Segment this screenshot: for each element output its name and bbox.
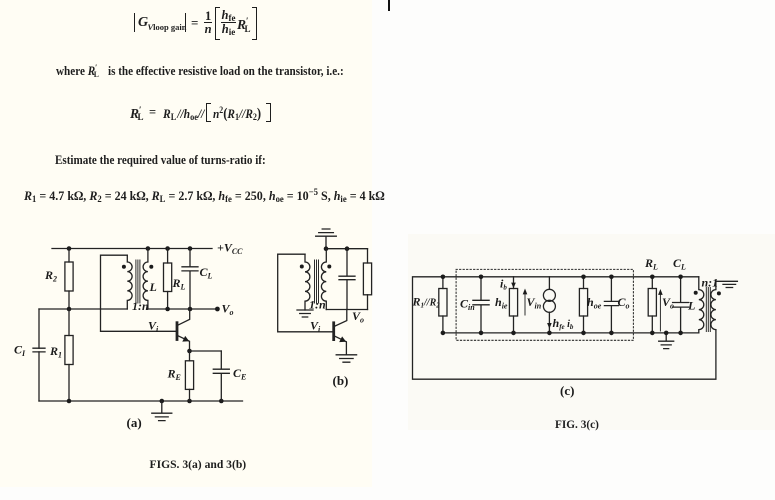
- node Cin bottom: [479, 331, 484, 336]
- svg-text:Vo: Vo: [222, 302, 234, 318]
- svg-text:CL: CL: [673, 256, 686, 272]
- label R1//R2: [412, 295, 441, 310]
- label CE: [233, 366, 246, 382]
- label Vi (a): [148, 319, 159, 335]
- label L (a): [149, 280, 157, 294]
- label (b) caption: [333, 373, 349, 388]
- svg-text:L: L: [687, 299, 695, 313]
- resistor RE: [185, 351, 193, 401]
- current source hfe ib: [543, 277, 555, 333]
- wire feedback loop primary-to-base (a): [101, 255, 176, 331]
- node Vo terminal (a): [215, 307, 220, 312]
- svg-text:Vi: Vi: [148, 319, 159, 335]
- node RL top (c): [650, 275, 655, 280]
- capacitor CL (a): [182, 249, 198, 310]
- values-line: [24, 188, 385, 204]
- node current source bottom: [547, 331, 552, 336]
- capacitor CI: [33, 348, 45, 352]
- label Vo (a): [222, 302, 234, 318]
- transformer T3 phase dot secondary: [717, 291, 721, 295]
- node R2-VCC junction: [67, 246, 72, 251]
- node CL-collector junction: [188, 307, 193, 312]
- svg-text:(c): (c): [560, 383, 574, 398]
- wire outer loop (c): [413, 277, 716, 379]
- svg-text:CL: CL: [200, 265, 213, 281]
- wire emitter to CE: [190, 350, 222, 352]
- power +VCC label: [217, 241, 243, 257]
- ground symbol primary (b): [297, 310, 313, 317]
- resistor load (b): [363, 249, 371, 310]
- label Vin: [527, 295, 542, 311]
- node CE-ground junction: [219, 399, 224, 404]
- svg-text:R1: R1: [49, 344, 62, 360]
- svg-text:Cin: Cin: [460, 297, 475, 313]
- label RE: [167, 367, 181, 383]
- ground symbol secondary top (c): [716, 281, 738, 287]
- page-edge tick mark: [388, 0, 390, 11]
- label 1:n (b): [309, 298, 326, 312]
- dashed hybrid-model box: [456, 269, 633, 340]
- label L (c): [687, 299, 695, 313]
- label hoe: [587, 295, 602, 311]
- svg-text:ib: ib: [500, 277, 507, 292]
- ground symbol top (b) inverted: [316, 229, 337, 249]
- wire output node (a): [148, 308, 218, 310]
- transformer T2 primary winding (b): [305, 254, 310, 310]
- wire VCC top rail (a): [52, 248, 212, 250]
- svg-text:CE: CE: [233, 366, 246, 382]
- node CL bottom (c): [678, 331, 683, 336]
- transformer T1 secondary winding L (a): [143, 249, 148, 310]
- node RE-ground junction: [187, 399, 192, 404]
- svg-text:1:n: 1:n: [132, 299, 149, 313]
- label hfe ib: [553, 316, 574, 331]
- node transformer-secondary VCC junction: [146, 246, 151, 251]
- node hoe bottom: [581, 331, 586, 336]
- label ib: [500, 277, 507, 292]
- node RL-output junction: [165, 307, 170, 312]
- label RL (c): [644, 256, 658, 272]
- svg-text:(a): (a): [127, 415, 142, 430]
- node CL-VCC junction: [188, 246, 193, 251]
- resistor RL (c): [648, 277, 656, 333]
- transistor Q1 (a): [177, 309, 190, 351]
- label Vo (b): [352, 309, 364, 325]
- resistor hie with ib arrow: [509, 277, 517, 333]
- transformer T1 phase dot primary: [122, 265, 126, 269]
- node hie bottom: [511, 331, 516, 336]
- resistor RL (a): [164, 249, 172, 310]
- ground symbol emitter (b): [336, 355, 356, 362]
- label CI: [14, 343, 26, 359]
- label (a) caption: [127, 415, 142, 430]
- label Co: [618, 295, 630, 311]
- label CL (c): [673, 256, 686, 272]
- node capacitor junction top (b): [345, 246, 350, 251]
- capacitor Co: [604, 277, 618, 333]
- label hie: [495, 295, 508, 311]
- svg-text:Vo: Vo: [352, 309, 364, 325]
- capacitor CE: [213, 351, 229, 401]
- transformer T1 phase dot secondary: [149, 265, 153, 269]
- wire ground rail (a): [39, 400, 243, 402]
- node ground-symbol junction: [160, 399, 165, 404]
- transformer T2 secondary winding (b): [321, 249, 326, 310]
- node RL bottom (c): [650, 331, 655, 336]
- node R1-ground junction: [67, 399, 72, 404]
- svg-text:R1//R2: R1//R2: [412, 295, 441, 310]
- transformer T3 phase dot primary: [694, 291, 698, 295]
- arrow Vin: [523, 289, 528, 316]
- capacitor Cin: [473, 277, 489, 333]
- node Co bottom: [609, 331, 614, 336]
- node RL-VCC junction: [165, 246, 170, 251]
- transistor Q1 (b): [334, 310, 347, 355]
- node secondary-ground junction (b): [324, 246, 329, 251]
- estimate-line: [55, 153, 266, 168]
- svg-text:RE: RE: [167, 367, 181, 383]
- equation 1: |G_Vloop gain| = (1/n)[hfe/hie R'L]: [0, 0, 1, 1]
- node Cin top: [479, 275, 484, 280]
- ground symbol (c): [659, 333, 674, 349]
- capacitor (b): [339, 249, 355, 310]
- svg-text:Co: Co: [618, 295, 630, 311]
- node Co top: [609, 275, 614, 280]
- transformer T2 phase dot secondary: [327, 265, 331, 269]
- figure captions: [150, 458, 247, 471]
- label Cin: [460, 297, 475, 313]
- resistor R1: [65, 309, 73, 401]
- wire feedback loop (b): [278, 254, 333, 332]
- label RL (a): [172, 276, 186, 292]
- wire left branch with CI: [38, 309, 40, 401]
- label n:1 (c): [702, 276, 719, 290]
- svg-text:RL: RL: [644, 256, 658, 272]
- wire top rail (b): [326, 248, 368, 250]
- svg-text:1:n: 1:n: [309, 298, 326, 312]
- node emitter junction (a): [187, 349, 192, 354]
- svg-text:(b): (b): [333, 373, 349, 388]
- ground symbol (a): [152, 401, 172, 421]
- label R1: [49, 344, 62, 360]
- node ground junction (c): [664, 331, 669, 336]
- svg-text:RL: RL: [172, 276, 186, 292]
- node R12 bottom: [441, 331, 446, 336]
- svg-text:hoe: hoe: [587, 295, 602, 311]
- svg-text:L: L: [149, 280, 157, 294]
- node R2-R1 junction: [67, 307, 72, 312]
- label (c) caption: [560, 383, 574, 398]
- svg-text:n:1: n:1: [702, 276, 719, 290]
- transformer T1 primary winding (a): [127, 255, 132, 309]
- transformer T3 primary winding L (c): [699, 277, 704, 333]
- node CL top (c): [678, 275, 683, 280]
- transformer T3 core: [706, 288, 710, 332]
- transformer T2 core: [315, 260, 319, 303]
- label 1:n (a): [132, 299, 149, 313]
- label CL (a): [200, 265, 213, 281]
- arrow Vo (c): [658, 289, 663, 331]
- transformer T2 phase dot primary: [300, 265, 304, 269]
- resistor R2: [65, 249, 73, 310]
- label Vo (c): [662, 295, 674, 311]
- svg-text:R2: R2: [44, 268, 57, 284]
- label Vi (b): [310, 319, 321, 335]
- node hoe top: [581, 275, 586, 280]
- wire base-divider node (a) left segment: [39, 308, 127, 310]
- wire output node (b): [326, 309, 367, 311]
- svg-text:Vin: Vin: [527, 295, 542, 311]
- resistor hoe: [579, 277, 587, 333]
- svg-text:hfe ib: hfe ib: [553, 316, 574, 331]
- svg-text:Vi: Vi: [310, 319, 321, 335]
- transformer T3 secondary winding (c): [711, 281, 716, 329]
- node R12 top: [441, 275, 446, 280]
- wire bottom rail (c): [443, 332, 699, 334]
- label R2: [44, 268, 57, 284]
- svg-text:hie: hie: [495, 295, 508, 311]
- capacitor CL (c): [673, 277, 689, 333]
- svg-text:CI: CI: [14, 343, 26, 359]
- where-line: [56, 64, 344, 79]
- svg-text:+VCC: +VCC: [217, 241, 243, 257]
- transformer T1 core: [136, 260, 140, 303]
- resistor R1//R2: [439, 277, 447, 333]
- equation 2: [0, 0, 1, 1]
